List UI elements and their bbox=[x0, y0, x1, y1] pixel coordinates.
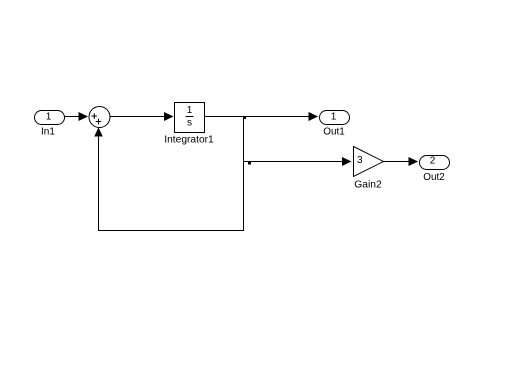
svg-text:3: 3 bbox=[357, 155, 363, 166]
svg-text:Integrator1: Integrator1 bbox=[164, 135, 214, 146]
svg-text:Out1: Out1 bbox=[323, 127, 345, 138]
outport Out2 bbox=[420, 156, 450, 170]
arrowhead up into sum bbox=[94, 128, 103, 137]
gain Gain2 bbox=[354, 147, 384, 177]
svg-text:1: 1 bbox=[331, 112, 337, 123]
integrator Integrator1 bbox=[175, 103, 205, 133]
inport In1 bbox=[35, 111, 65, 125]
svg-text:2: 2 bbox=[430, 156, 436, 167]
svg-text:In1: In1 bbox=[41, 127, 55, 138]
svg-text:1: 1 bbox=[46, 112, 52, 123]
wire branch to Gain2 bbox=[244, 161, 352, 163]
arrowhead into Out1 bbox=[309, 112, 319, 121]
sum junction U1 bbox=[89, 107, 110, 128]
svg-text:1: 1 bbox=[187, 105, 193, 116]
svg-text:Out2: Out2 bbox=[423, 172, 445, 183]
arrowhead into sum bbox=[79, 112, 89, 121]
svg-text:Gain2: Gain2 bbox=[354, 180, 382, 191]
svg-text:s: s bbox=[187, 118, 192, 129]
branch junction node A bbox=[243, 116, 246, 119]
arrowhead into Out2 bbox=[409, 157, 419, 166]
branch junction node B bbox=[248, 162, 251, 165]
outport Out1 bbox=[320, 111, 350, 125]
wire integrator to Out1 bbox=[205, 116, 318, 118]
wire Gain2 to Out2 bbox=[384, 161, 418, 163]
wire In1 to sum bbox=[65, 116, 88, 118]
wire sum to integrator bbox=[110, 116, 173, 118]
wire feedback branch down left up to sum bbox=[99, 117, 244, 231]
arrowhead into integrator bbox=[164, 112, 174, 121]
arrowhead into Gain2 bbox=[342, 157, 352, 166]
